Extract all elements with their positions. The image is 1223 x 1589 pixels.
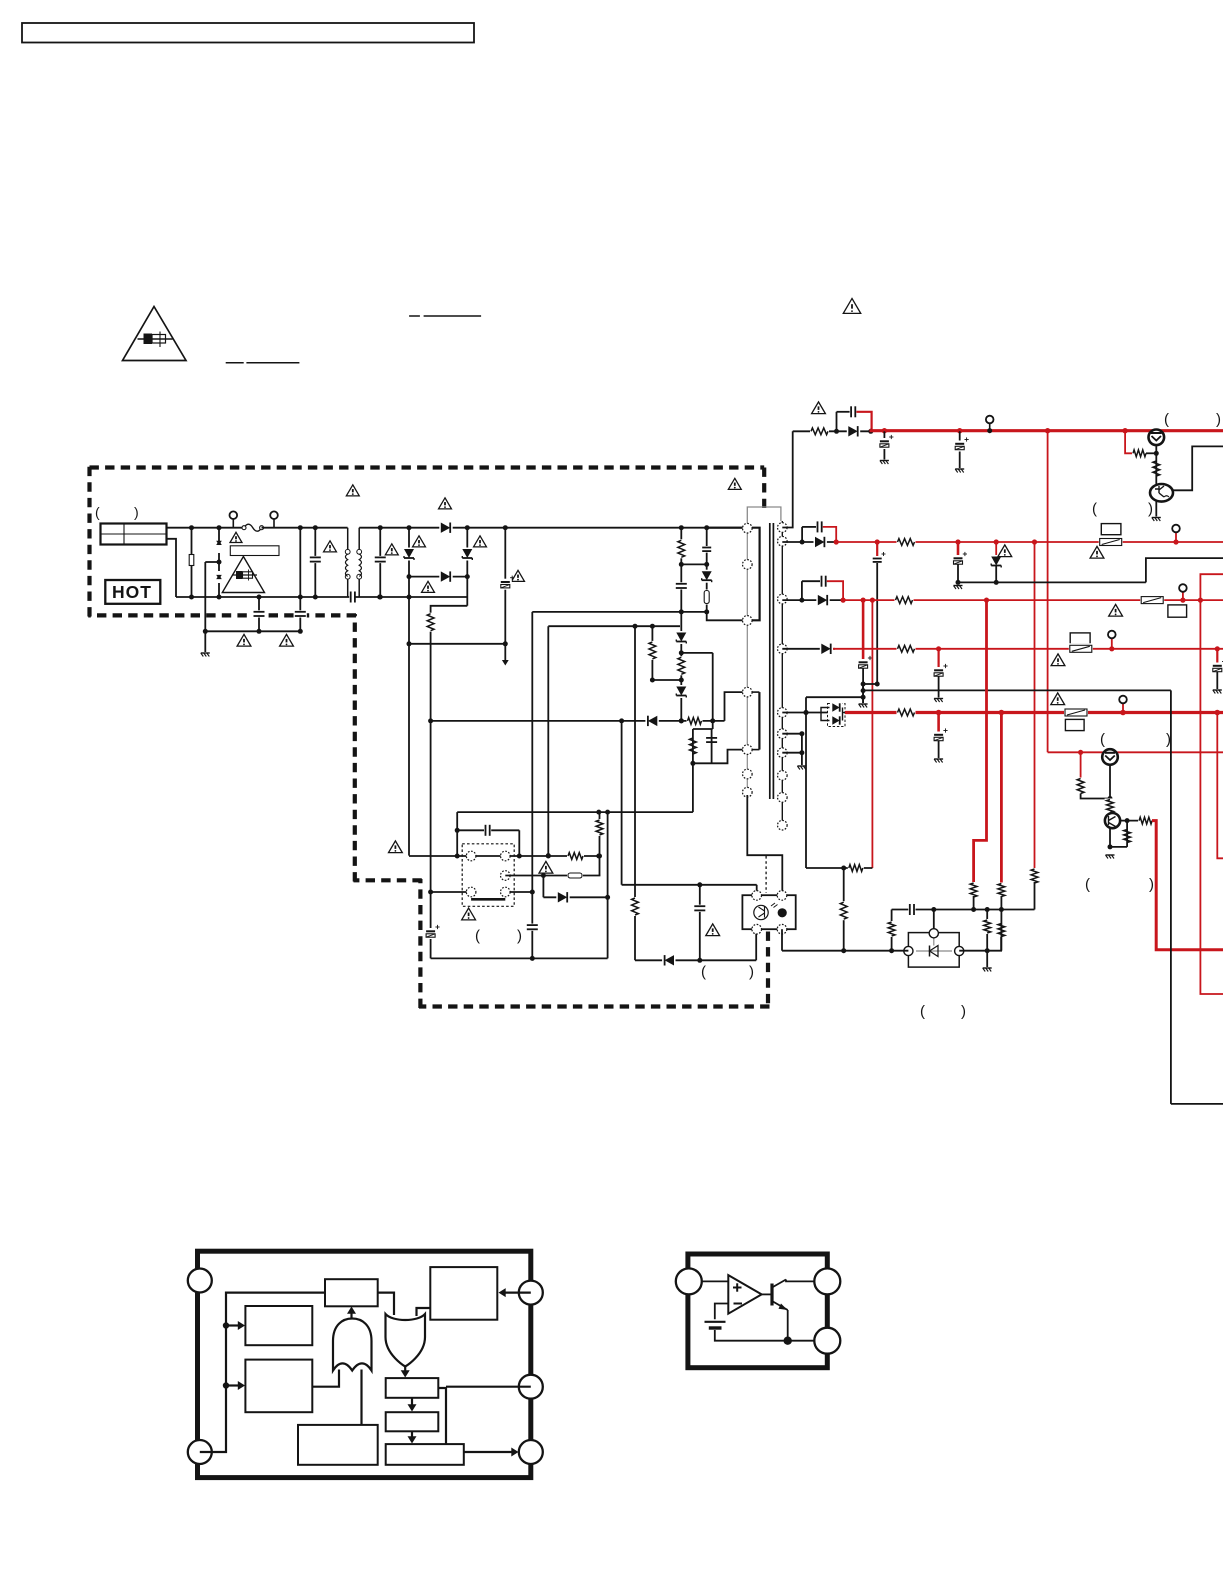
hot label box bbox=[105, 580, 160, 604]
wire emitter to anode bbox=[787, 1310, 789, 1341]
transformer pin 17 bbox=[778, 820, 788, 830]
junction q6 collector bbox=[1125, 818, 1130, 823]
wire opto bottom pin lead bbox=[755, 929, 757, 960]
junction rail5 ecap bbox=[936, 710, 942, 716]
wire aux ground out bbox=[1171, 1103, 1223, 1105]
wire rectifier row 2 bbox=[782, 541, 837, 543]
hot area dashed border step vertical bbox=[418, 879, 422, 1008]
wire bus lower link bbox=[409, 643, 505, 645]
wire clamp branch a bbox=[680, 528, 682, 722]
junction ovp end bbox=[546, 853, 551, 858]
startup resistor r1 bbox=[425, 613, 436, 632]
junction rail1 cap a bbox=[882, 428, 887, 433]
ic pin 7 bbox=[501, 871, 511, 881]
junction opto bottom bbox=[697, 958, 702, 963]
junction pin7 riser vcc bbox=[597, 854, 602, 859]
wire bus zener branch a bbox=[408, 528, 410, 856]
wire q2 collector out bbox=[1173, 446, 1223, 490]
wire aux ground line bbox=[863, 689, 1171, 691]
transformer primary bracket bbox=[707, 528, 760, 621]
transformer pin 12 bbox=[778, 708, 788, 718]
warning mark above rectifier bbox=[439, 498, 452, 509]
wire shunt cathode row bbox=[782, 950, 908, 952]
wire fb divider column bbox=[843, 868, 845, 951]
warning mark rail2 a bbox=[998, 545, 1012, 557]
wire and gate to osc bbox=[350, 1310, 352, 1319]
wire ic pin7 row bbox=[505, 875, 600, 877]
snubber capacitor c19 bbox=[820, 575, 827, 588]
wire opto pin4 lead bbox=[781, 929, 783, 951]
wire q1 to q2 bbox=[1155, 453, 1157, 484]
title box bbox=[22, 23, 474, 43]
wire opto top feed bbox=[621, 721, 623, 885]
wire aux rc res leads bbox=[692, 729, 694, 763]
zener d1 bbox=[403, 548, 415, 561]
junction ic vcc d bbox=[596, 854, 601, 859]
block latch rect bbox=[298, 1425, 378, 1465]
legend underline right b bbox=[424, 315, 482, 317]
wire ovp link bbox=[548, 625, 680, 627]
wire rail5 ecap lower bbox=[938, 741, 940, 759]
resistor r11 bbox=[1132, 448, 1147, 459]
junction feedback a bbox=[619, 718, 624, 723]
wire row2 snubber top bbox=[802, 526, 817, 528]
terminal rail1 bbox=[986, 416, 994, 424]
junction on live rail x191.5 bbox=[189, 525, 194, 530]
x capacitor c1 bbox=[309, 556, 322, 563]
junction aux rc bottom bbox=[690, 761, 695, 766]
wire vcc sense link bbox=[532, 611, 706, 613]
wire rectifier row 4 bbox=[782, 648, 835, 650]
junction ic vcc b bbox=[517, 854, 522, 859]
junction clamp a5 feedback bbox=[679, 718, 684, 723]
hot area dashed border left mid vertical bbox=[353, 614, 357, 882]
wire ground branch bbox=[204, 562, 206, 652]
rectifier diode d10 bbox=[847, 425, 860, 437]
wire y-cap branch b bbox=[299, 597, 301, 631]
junction rail2 fb drop bbox=[1032, 539, 1037, 544]
transformer primary side rail bbox=[746, 521, 748, 795]
junction on neutral rail x300.3 bbox=[298, 595, 303, 600]
junction row3 snubber bbox=[799, 598, 804, 603]
red fb rail5 drop bbox=[1000, 713, 1003, 885]
ic block pin circle 1 bbox=[188, 1269, 212, 1293]
arrow into comp1 bbox=[226, 1324, 239, 1326]
resistor r21 bbox=[1138, 815, 1153, 826]
wire or gate to driver bbox=[417, 1308, 431, 1316]
junction divider bottom bbox=[650, 678, 655, 683]
ic pin 2 bbox=[466, 887, 476, 897]
transformer pin 15 bbox=[778, 771, 788, 781]
junction on live rail x505.3 bbox=[503, 525, 508, 530]
wire sense return column bbox=[607, 812, 609, 958]
wire row3 snubber top bbox=[802, 580, 822, 582]
wire y-cap common bbox=[205, 630, 300, 632]
svg-text:): ) bbox=[517, 928, 522, 945]
fuse F1 bbox=[244, 524, 262, 531]
junction on live rail x315.3 bbox=[313, 525, 318, 530]
block and gate bbox=[333, 1319, 372, 1371]
op-amp u1 bbox=[728, 1275, 761, 1314]
resistor r3 bbox=[676, 656, 687, 675]
hot area dotted boundary at optocoupler bbox=[765, 856, 767, 893]
wire ic ground rail bbox=[431, 957, 608, 959]
block driver rect bbox=[430, 1267, 497, 1320]
junction negative supply bbox=[804, 710, 809, 715]
resistor r27 bbox=[996, 923, 1007, 938]
common mode choke L1 bbox=[347, 528, 349, 550]
wire sense diode row bbox=[543, 896, 607, 898]
wire feedback to aux pin bbox=[725, 692, 744, 721]
thermistor bbox=[188, 555, 195, 566]
ic pin 8 bbox=[501, 851, 511, 861]
resistor r5 bbox=[647, 641, 658, 660]
junction q6 emitter bbox=[1108, 844, 1113, 849]
junction clamp a4 bbox=[679, 678, 684, 683]
ic block pin circle 2 bbox=[188, 1440, 212, 1464]
transformer boundary jog bbox=[747, 507, 781, 521]
junction ic vcc a bbox=[455, 854, 460, 859]
junction ic vcc c bbox=[546, 854, 551, 859]
hot area dashed border bottom bbox=[419, 1004, 770, 1008]
warning mark zener b bbox=[474, 536, 487, 547]
wire rail2 zener lower bbox=[995, 566, 997, 582]
transformer pin 11 bbox=[778, 644, 788, 654]
junction bulk cap bbox=[503, 641, 508, 646]
wire row3 snubber red corner bbox=[827, 581, 843, 599]
transformer pin 13 bbox=[778, 729, 788, 739]
resistor r9 bbox=[594, 819, 605, 836]
junction vcc supply a bbox=[596, 810, 601, 815]
legend underline left b bbox=[246, 362, 299, 364]
terminal rail2 bbox=[1172, 525, 1180, 533]
shunt regulator internal zener bbox=[916, 950, 952, 952]
wire rail2 ecap lower bbox=[957, 564, 959, 582]
shunt pin ref bbox=[929, 929, 938, 938]
transformer secondary side rail bbox=[781, 521, 783, 826]
svg-text:(: ( bbox=[920, 1003, 925, 1020]
chassis ground ac filter bbox=[201, 652, 210, 654]
junction rail4 ecap bbox=[936, 646, 941, 651]
wire clamp to drain pin bbox=[707, 612, 743, 620]
junction shunt right bbox=[985, 948, 990, 953]
transformer pin 1 bbox=[743, 523, 753, 533]
junction pin7 branch bbox=[541, 873, 546, 878]
red standby output bbox=[1152, 821, 1223, 950]
wire ic pin6 lead bbox=[510, 891, 532, 893]
resistor r26 bbox=[886, 921, 897, 937]
transformer pin 10 bbox=[778, 594, 788, 604]
red bus right vertical bbox=[1200, 574, 1223, 994]
regulator pin circle anode bbox=[814, 1328, 840, 1354]
wire r22 leads bbox=[1126, 821, 1128, 847]
wire black col under ref bbox=[986, 910, 988, 968]
transformer bottom link bbox=[747, 795, 782, 895]
red feedback drop from rail2 bbox=[1034, 542, 1036, 871]
resistor r23 bbox=[968, 882, 979, 898]
wire small1 to pin4 link bbox=[438, 1388, 446, 1444]
diode d9 bbox=[556, 891, 569, 903]
opto pin 2 bbox=[777, 891, 787, 901]
wire cluster col bbox=[862, 684, 864, 703]
wire row1 snubber red corner bbox=[856, 412, 871, 430]
junction vcc supply b bbox=[605, 810, 610, 815]
junction y-cap common c bbox=[298, 629, 303, 634]
svg-text:(: ( bbox=[95, 504, 100, 520]
wire or to small rect 1 bbox=[404, 1367, 406, 1373]
junction row5 input bbox=[804, 710, 809, 715]
warning mark rail4 bbox=[1051, 654, 1065, 666]
optocoupler ic3 box bbox=[742, 895, 795, 929]
shunt pin cathode bbox=[955, 946, 964, 955]
transistor q5 bbox=[1102, 749, 1118, 765]
transformer core bbox=[769, 523, 771, 799]
red feedback drop from rail3 bbox=[871, 600, 873, 868]
junction on live rail x467.3 bbox=[465, 525, 470, 530]
ic block pin circle 5 bbox=[519, 1440, 543, 1464]
svg-text:(: ( bbox=[701, 964, 706, 981]
junction rail3 ecap bbox=[861, 598, 866, 603]
wire output to pin5 bbox=[464, 1451, 513, 1453]
wire collector to cathode pin bbox=[786, 1280, 814, 1282]
wire clamp branch b bbox=[706, 528, 708, 612]
supply rail 5 red thick bbox=[845, 711, 1223, 714]
junction ref b bbox=[971, 907, 976, 912]
wire comp2 to and gate bbox=[312, 1370, 339, 1387]
ground shunt bbox=[983, 967, 992, 969]
transformer pin 8 bbox=[778, 523, 788, 533]
snubber capacitor c13 bbox=[850, 405, 857, 418]
wire aux rc cap leads bbox=[711, 729, 713, 763]
red fb thick drop bbox=[974, 600, 987, 884]
svg-text:HOT: HOT bbox=[112, 582, 152, 602]
clamp capacitor c7 bbox=[675, 582, 688, 589]
junction on neutral rail x409 bbox=[407, 595, 412, 600]
surge arrester bbox=[216, 541, 223, 553]
wire rectified bus to transformer bbox=[359, 527, 747, 529]
wire sense column a bbox=[531, 612, 533, 959]
supply rail 3 red bbox=[842, 599, 1223, 601]
zener d12 bbox=[990, 555, 1002, 568]
junction rail5 terminal bbox=[1120, 710, 1126, 716]
wire x-cap2 branch bbox=[379, 528, 381, 597]
junction block bus a bbox=[223, 1322, 229, 1328]
block or gate bbox=[386, 1314, 426, 1367]
wire pin8 riser bbox=[782, 431, 792, 527]
junction bypass left bbox=[455, 828, 460, 833]
wire row1 snubber left bbox=[836, 412, 838, 432]
wire q6 emitter bbox=[1109, 828, 1111, 847]
fusible resistor fr1 bbox=[703, 590, 711, 605]
resistor r4 bbox=[630, 897, 641, 916]
wire ic vcc row bbox=[409, 855, 599, 857]
transformer aux bracket bbox=[758, 692, 760, 750]
clamp capacitor c8 bbox=[701, 546, 712, 553]
warning mark top right bbox=[843, 298, 860, 313]
wire divider column bbox=[651, 626, 653, 680]
red stub rail2 terminal bbox=[1175, 532, 1177, 542]
dual diode d15 output link bbox=[842, 708, 844, 721]
warning mark rail5 bbox=[1051, 693, 1065, 705]
junction surge arrester mid bbox=[217, 560, 222, 565]
junction cluster b bbox=[875, 682, 880, 687]
dual diode d15 dashed box bbox=[828, 704, 846, 727]
rectifier diode d14 bbox=[820, 643, 833, 655]
junction on neutral rail x380.25 bbox=[378, 595, 383, 600]
wire q6 base corner bbox=[1081, 794, 1110, 799]
junction zener b mid bbox=[465, 574, 470, 579]
wire corner neutral to startup bbox=[431, 606, 468, 959]
junction row1 diode out bbox=[868, 429, 873, 434]
warning mark above fuse box bbox=[230, 532, 242, 542]
transformer pin 4 bbox=[743, 687, 753, 697]
red stub standby divider bbox=[1080, 752, 1082, 779]
wire sense branch bbox=[542, 876, 544, 898]
wire bulk cap branch bbox=[504, 528, 506, 660]
junction rail5 right branch bbox=[1215, 710, 1221, 716]
wire inverting input bbox=[715, 1304, 729, 1320]
wire opto top feed horizontal bbox=[622, 884, 757, 886]
red stub rail4 terminal bbox=[1111, 638, 1113, 649]
junction ovp b bbox=[650, 624, 655, 629]
ground rail2 bbox=[954, 585, 963, 587]
hot area dashed border right lower bbox=[766, 932, 770, 1007]
junction on live rail x300.3 bbox=[298, 525, 303, 530]
wire opto top pin lead bbox=[756, 885, 758, 896]
junction rail4 terminal bbox=[1109, 646, 1114, 651]
transistor q10 bbox=[770, 1284, 773, 1306]
legend warning triangle with fuse symbol bbox=[123, 307, 187, 361]
wire divider link bbox=[652, 679, 681, 681]
wire row2 snubber red corner bbox=[823, 527, 836, 541]
ic pin 1 bbox=[466, 851, 476, 861]
junction rail1 drop bbox=[1045, 428, 1050, 433]
ground q6 bbox=[1106, 854, 1115, 856]
hot area dashed border left bbox=[87, 466, 91, 616]
red stub rail2 cap bbox=[876, 542, 878, 556]
wire bus zener branch b bbox=[466, 528, 468, 606]
fuse rating box bbox=[230, 546, 279, 556]
wire rail2 cap col lower bbox=[876, 563, 878, 684]
opto pin 4 bbox=[777, 924, 787, 934]
junction on neutral rail x191.5 bbox=[189, 595, 194, 600]
junction rail2 zener bbox=[994, 539, 999, 544]
junction rail3 fb bbox=[870, 598, 875, 603]
junction opto feed bbox=[697, 882, 702, 887]
wire clamp link upper bbox=[681, 563, 706, 565]
x capacitor c2 bbox=[374, 556, 387, 563]
clamp resistor r2 bbox=[676, 539, 687, 558]
junction on neutral rail x259 bbox=[257, 595, 262, 600]
ground rail4 right bbox=[1213, 689, 1222, 691]
resistor r20 bbox=[1105, 799, 1116, 814]
dual diode d15 lower element bbox=[831, 715, 842, 725]
wire clamp mid link bbox=[681, 652, 712, 654]
resistor r15 bbox=[848, 863, 864, 874]
resistor r17 bbox=[897, 643, 916, 654]
wire row3 snubber left bbox=[801, 581, 803, 600]
relay coil row2 bbox=[1101, 524, 1121, 535]
wire fb mid lower bbox=[1000, 896, 1002, 910]
junction cluster a bbox=[861, 682, 866, 687]
capacitor c9 bbox=[526, 924, 539, 931]
svg-text:(: ( bbox=[1100, 731, 1105, 748]
wire q1 base bbox=[1146, 452, 1156, 454]
rectifier diode d11 bbox=[814, 536, 827, 548]
junction clamp a1 bbox=[679, 562, 684, 567]
resistor r24 bbox=[1029, 868, 1040, 884]
y capacitor c4 bbox=[294, 610, 307, 617]
ic block pin circle 4 bbox=[519, 1375, 543, 1399]
junction rail1 q1 base feed bbox=[1122, 428, 1127, 433]
capacitor in neutral rail bbox=[349, 591, 356, 604]
red stub rail4 right bbox=[1216, 649, 1218, 664]
junction rail4 right bbox=[1215, 646, 1220, 651]
plus mark c17 bbox=[882, 553, 886, 555]
wire small2 to output bbox=[411, 1431, 413, 1438]
junction on neutral rail x315.3 bbox=[313, 595, 318, 600]
resistor r22 bbox=[1122, 829, 1133, 844]
ic block pin circle 3 bbox=[519, 1281, 543, 1305]
warning mark below ic bbox=[462, 908, 476, 920]
junction rail2 b bbox=[955, 539, 960, 544]
hot area dashed border top bbox=[90, 465, 765, 469]
terminal rail5 bbox=[1119, 696, 1127, 704]
svg-text:): ) bbox=[1216, 411, 1221, 428]
junction clamp a2 bbox=[679, 609, 684, 614]
transformer pin 16 bbox=[778, 793, 788, 803]
warning mark hot top area bbox=[346, 485, 359, 496]
ground rail4 bbox=[934, 698, 943, 700]
wire ac live rail bbox=[167, 527, 245, 529]
junction on live rail x681.3 bbox=[679, 525, 684, 530]
junction secondary common a bbox=[799, 731, 804, 736]
warning mark near dashed corner bbox=[728, 478, 741, 489]
junction zener a mid bbox=[407, 574, 412, 579]
wire aux rc top bbox=[693, 728, 713, 730]
test terminal tp1 bbox=[230, 511, 238, 519]
transistor q2 digital bbox=[1150, 484, 1173, 502]
reference battery bbox=[705, 1321, 726, 1323]
wire q1 base feed red bbox=[1125, 431, 1133, 454]
shunt pin anode bbox=[904, 946, 913, 955]
svg-text:(: ( bbox=[1085, 876, 1090, 893]
ground q2 bbox=[1152, 517, 1161, 519]
wire rail1 cap a lead bbox=[883, 431, 885, 459]
transformer pin 14 bbox=[778, 748, 788, 758]
junction cluster c bbox=[861, 688, 866, 693]
electrolytic c18 bbox=[952, 555, 965, 566]
regulator pin circle ref bbox=[676, 1268, 702, 1294]
wire ref left leg bbox=[891, 910, 893, 951]
wire q5 emitter to node bbox=[1109, 765, 1111, 799]
junction sense a gnd bbox=[530, 956, 535, 961]
wire tl431 top pin lead bbox=[933, 910, 935, 934]
diode d8 bbox=[662, 954, 675, 966]
y capacitor c3 bbox=[253, 610, 266, 617]
warning mark left of zeners bbox=[385, 544, 398, 555]
warning mark left of ic bbox=[389, 841, 403, 853]
svg-text:): ) bbox=[134, 504, 139, 520]
junction ovp a bbox=[633, 624, 638, 629]
wire small1 to small2 bbox=[411, 1398, 413, 1407]
block small rect 1 bbox=[386, 1378, 439, 1398]
junction clamp b1 bbox=[704, 562, 709, 567]
capacitor c24 bbox=[908, 903, 915, 916]
wire rail4 ecap lower bbox=[938, 676, 940, 698]
diode d7 bbox=[645, 715, 658, 727]
wire shunt to r27 bbox=[987, 937, 1001, 951]
